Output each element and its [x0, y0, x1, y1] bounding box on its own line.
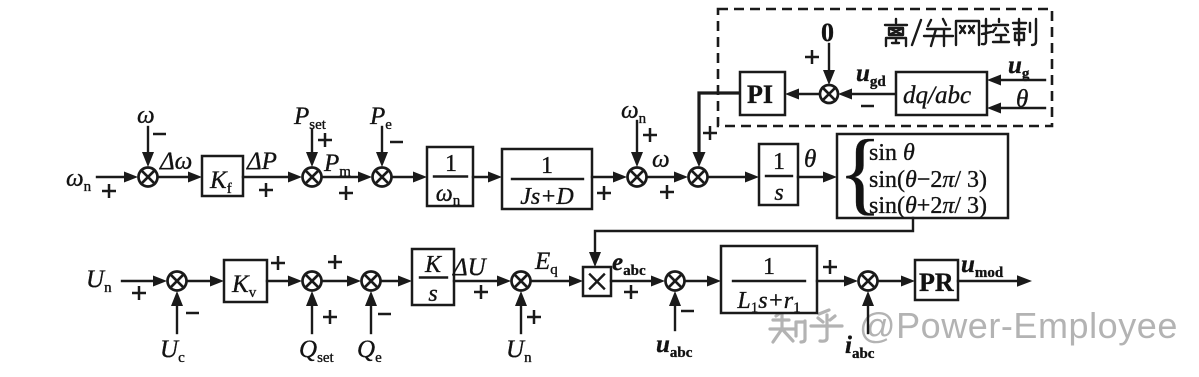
summing junction S2 — [303, 168, 322, 187]
wire Kf to S2 — [243, 176, 289, 178]
plus sign at S6 top input — [805, 50, 819, 64]
wire multiplier to B5 — [611, 280, 652, 282]
wire PR output — [958, 280, 1018, 282]
svg-text:dq/abc: dq/abc — [903, 82, 971, 109]
plus sign after Kv — [271, 256, 285, 270]
summing junction B6 — [859, 272, 878, 291]
wire U_c up into B1 — [176, 305, 178, 333]
plus sign at B4 bottom input — [527, 310, 541, 324]
wire u_abc up into B5 — [674, 305, 676, 330]
dashed box island/grid control — [718, 9, 1052, 126]
summing junction S3 — [373, 168, 392, 187]
plus sign after S4 — [660, 185, 674, 199]
minus sign at S6 right input — [861, 105, 874, 108]
plus sign after multiplier — [624, 285, 638, 299]
wire omega_n down into S4 — [636, 121, 638, 153]
block 1/(L1s+r1) — [721, 246, 817, 313]
svg-text:1: 1 — [763, 254, 775, 280]
svg-text:s: s — [428, 281, 437, 307]
wire P_e down into S3 — [381, 127, 383, 153]
wire omega_n to S1 — [97, 176, 125, 178]
plus sign at summing junction S1 input — [102, 184, 116, 198]
summing junction S1 — [139, 168, 158, 187]
plus sign after K/s — [474, 285, 488, 299]
wire Kv to B2 — [267, 280, 289, 282]
svg-text:Js+D: Js+D — [520, 184, 574, 210]
block dq/abc — [896, 72, 987, 115]
svg-text:PR: PR — [919, 268, 954, 297]
plus sign at S4 top input — [643, 128, 657, 142]
svg-text:Un: Un — [506, 336, 532, 366]
wire S5 to 1/s — [708, 176, 746, 178]
svg-text:Pm: Pm — [323, 150, 351, 180]
wire S6 to PI — [798, 93, 819, 95]
block PI — [740, 72, 785, 115]
summing junction S5 — [689, 168, 708, 187]
svg-text:ΔU: ΔU — [452, 254, 488, 281]
summing junction B5 — [666, 272, 685, 291]
svg-text:ω: ω — [137, 102, 155, 129]
wire S1 to Kf — [158, 176, 189, 178]
svg-text:Pe: Pe — [369, 103, 392, 133]
summing junction B4 — [512, 272, 531, 291]
svg-text:1: 1 — [445, 151, 457, 177]
plus sign after filter block — [823, 260, 837, 274]
svg-text:θ: θ — [804, 146, 816, 173]
svg-text:eabc: eabc — [612, 249, 646, 279]
svg-text:sin(θ−2π/ 3): sin(θ−2π/ 3) — [869, 167, 987, 193]
wire omega down into S1 — [147, 127, 149, 153]
glyph bing — [924, 19, 953, 46]
block 1/omega_n — [427, 147, 473, 206]
block 1/s — [759, 144, 798, 205]
wire K/s to B4 — [454, 280, 498, 282]
block PR — [915, 260, 958, 300]
minus sign at B5 bottom input — [681, 310, 694, 313]
svg-text:@Power-Employee: @Power-Employee — [859, 305, 1178, 346]
plus sign after S2 — [339, 186, 353, 200]
svg-text:ωn: ωn — [621, 97, 647, 127]
svg-text:ω: ω — [652, 146, 670, 173]
svg-text:Qe: Qe — [357, 336, 382, 366]
plus sign after B2 — [328, 255, 342, 269]
plus sign after 1/(Js+D) — [597, 186, 611, 200]
svg-text:Uc: Uc — [160, 336, 185, 366]
wire Q_e up into B3 — [370, 305, 372, 333]
wire B5 to filter block — [685, 280, 708, 282]
wire 1/wn to 1/(Js+D) — [473, 176, 489, 178]
svg-text:L1s+r1: L1s+r1 — [736, 288, 800, 316]
svg-text:ΔP: ΔP — [246, 148, 277, 175]
summing junction B3 — [362, 272, 381, 291]
svg-text:ugd: ugd — [856, 60, 886, 90]
summing junction S4 — [628, 168, 647, 187]
svg-text:1: 1 — [541, 153, 553, 179]
glyph li (off-grid) — [885, 19, 907, 46]
svg-text:Δω: Δω — [159, 148, 192, 175]
svg-text:umod: umod — [961, 251, 1004, 281]
svg-text:0: 0 — [821, 18, 834, 47]
summing junction B2 — [303, 272, 322, 291]
block Kv — [224, 260, 267, 302]
wire B4 to multiplier — [531, 280, 570, 282]
wire B2 to B3 — [322, 280, 348, 282]
wire U_n to B1 — [122, 280, 154, 282]
block Kf — [202, 156, 243, 196]
plus sign at B2 bottom input — [323, 310, 337, 324]
label off/grid control (hand-drawn CJK) — [885, 19, 1036, 46]
minus sign at S3 top input — [390, 141, 403, 144]
wire PI output down into S5 — [699, 93, 740, 153]
svg-text:Un: Un — [86, 266, 112, 296]
summing junction S6 — [820, 85, 838, 103]
minus sign at B1 bottom input — [186, 312, 199, 315]
block 1/(Js+D) — [502, 149, 592, 209]
glyph slash — [912, 20, 921, 45]
wire Q_set up into B2 — [311, 305, 313, 333]
wire S4 to S5 — [647, 176, 675, 178]
block sin generator — [837, 134, 1008, 218]
wire dq/abc to S6 — [851, 93, 896, 95]
wire 0 down into S6 — [828, 44, 830, 71]
svg-text:uabc: uabc — [656, 331, 693, 361]
wire B3 to K/s — [381, 280, 399, 282]
wire filter to B6 — [817, 280, 845, 282]
block K/s — [412, 249, 454, 305]
wire theta into dq/abc — [1000, 107, 1045, 109]
svg-text:1: 1 — [773, 149, 785, 175]
wire u_g into dq/abc — [1000, 79, 1045, 81]
svg-text:PI: PI — [747, 80, 773, 109]
glyph kong — [982, 19, 1009, 44]
plus sign at S5 top input — [703, 126, 717, 140]
wire i_abc up into B6 — [867, 305, 869, 333]
wire 1/s to sin block — [798, 176, 824, 178]
wire 1/(Js+D) to S4 — [592, 176, 614, 178]
wire sin block output down and left to multiplier — [595, 218, 913, 254]
svg-text:Qset: Qset — [299, 336, 335, 366]
svg-text:ug: ug — [1008, 52, 1030, 82]
svg-text:Pset: Pset — [293, 103, 327, 133]
wire S3 to block 1/wn — [392, 176, 414, 178]
wire B6 to PR — [878, 280, 902, 282]
svg-text:ωn: ωn — [66, 165, 92, 195]
wire U_n up into B4 — [520, 305, 522, 333]
svg-text:Eq: Eq — [534, 248, 558, 278]
wire P_set down into S2 — [311, 129, 313, 153]
svg-text:s: s — [774, 180, 783, 206]
plus sign after Kf — [259, 183, 273, 197]
svg-text:sin θ: sin θ — [869, 140, 915, 166]
svg-text:sin(θ+2π/ 3): sin(θ+2π/ 3) — [869, 193, 987, 219]
summing junction B1 — [168, 272, 187, 291]
multiplier block — [583, 267, 611, 296]
svg-text:K: K — [424, 252, 443, 278]
wire S2 to S3 — [322, 176, 359, 178]
minus sign at S1 top input — [153, 133, 166, 136]
wire B1 to Kv — [187, 280, 211, 282]
minus sign at B3 bottom input — [378, 313, 391, 316]
plus sign at S2 top input — [318, 133, 332, 147]
glyph zhi — [1013, 19, 1036, 45]
plus sign at B1 input — [132, 286, 146, 300]
glyph wang — [956, 21, 979, 45]
watermark zhihu logo text (hand-drawn CJK, gray) — [770, 310, 842, 342]
